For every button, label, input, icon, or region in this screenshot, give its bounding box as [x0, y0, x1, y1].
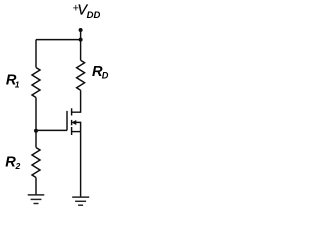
svg-text:D: D	[102, 71, 109, 81]
svg-text:DD: DD	[87, 10, 101, 21]
svg-text:2: 2	[15, 161, 21, 171]
svg-text:1: 1	[15, 81, 20, 90]
